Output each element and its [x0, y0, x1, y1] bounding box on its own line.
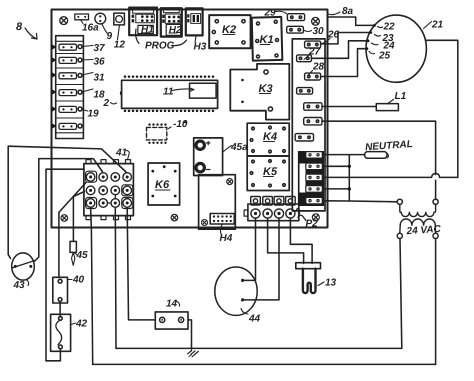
neutral wire 4	[324, 187, 351, 190]
screw hole bottom-left of board	[61, 215, 68, 222]
component 9 (circle with two dots)	[95, 13, 113, 42]
screw hole near K6	[171, 214, 178, 221]
svg-text:43: 43	[13, 280, 26, 291]
neutral wire 2	[324, 165, 351, 168]
svg-text:37: 37	[94, 43, 106, 54]
svg-text:22: 22	[383, 22, 396, 33]
svg-text:PROG: PROG	[145, 41, 175, 52]
strip connector row 5 (19)	[59, 106, 99, 119]
switch 40	[53, 275, 85, 304]
PROG label with leaders	[136, 29, 187, 52]
left connector strip	[56, 36, 84, 139]
svg-text:45a: 45a	[230, 142, 248, 153]
IC 2 with chip 11	[103, 80, 218, 109]
svg-text:36: 36	[94, 57, 106, 68]
relay K4	[247, 123, 289, 156]
svg-text:21: 21	[431, 20, 444, 31]
P2 wire t4 to igniter	[290, 218, 312, 263]
connector 28	[305, 62, 325, 81]
transformer secondary right wire to lower bottom line	[435, 239, 437, 365]
right connector strip	[292, 39, 325, 211]
stray pad dot	[184, 121, 187, 124]
inducer motor 44	[215, 267, 261, 325]
svg-text:16a: 16a	[82, 23, 99, 34]
wire from connector to transformer primary right	[322, 121, 436, 199]
header H4	[210, 214, 234, 245]
wire 40 to 42	[59, 301, 61, 317]
svg-text:19: 19	[88, 109, 100, 120]
P2 wire t1 to 44	[243, 218, 256, 280]
svg-text:44: 44	[248, 314, 261, 325]
wire 43 right riser to block r1c2	[35, 159, 103, 261]
svg-text:H1: H1	[141, 25, 154, 36]
motor 21	[366, 15, 444, 82]
svg-text:H2: H2	[169, 25, 182, 36]
screw hole top-left	[60, 17, 68, 25]
switch 14	[155, 299, 188, 330]
block col1 wire to lower bottom line	[91, 207, 93, 364]
relay K6	[148, 163, 180, 205]
wire board-left to block r1c4 (via 43 left)	[8, 146, 126, 172]
connector (below 28)	[297, 88, 313, 95]
neutral wire 1 + NEUTRAL pigtail	[324, 139, 413, 158]
svg-text:9: 9	[107, 31, 113, 42]
connector to transformer line	[304, 118, 322, 125]
header H2	[161, 8, 182, 36]
black connector block	[298, 151, 324, 206]
P2 wire t3 to 44	[243, 218, 279, 300]
upper bottom line	[116, 347, 402, 349]
transformer 24VAC	[397, 199, 442, 238]
svg-text:2: 2	[103, 98, 110, 109]
screw hole near P2	[312, 214, 319, 221]
connector 26	[305, 30, 340, 49]
relay K3 (notched polygon)	[230, 64, 289, 120]
connector (lower)	[295, 134, 313, 141]
sub-board (bottom middle)	[199, 175, 236, 230]
svg-text:28: 28	[312, 62, 325, 73]
svg-text:8: 8	[16, 21, 23, 33]
switch 14 to ground junction	[188, 320, 192, 349]
P2 wire t2 to igniter	[268, 218, 304, 263]
wire 25 from connector 28	[321, 47, 391, 76]
svg-text:31: 31	[94, 73, 106, 84]
connector to L1	[304, 103, 322, 110]
wire 42 loop riser to block left edge	[46, 169, 84, 361]
svg-text:K6: K6	[155, 179, 170, 191]
fuse 45	[70, 192, 88, 266]
label 8a with leader	[329, 6, 354, 17]
connector 29	[264, 8, 305, 21]
block col3 wire to upper bottom line	[114, 207, 117, 348]
dashed box 10	[147, 119, 188, 144]
terminal strip P2	[244, 197, 318, 230]
transformer secondary left wire to upper bottom line	[400, 239, 402, 349]
block col4 wire to switch 14	[127, 207, 155, 320]
svg-text:29: 29	[264, 8, 277, 19]
svg-text:25: 25	[378, 51, 391, 62]
wire 24 from connector 27	[311, 39, 395, 58]
wire 22	[328, 17, 396, 33]
connector 30	[287, 26, 324, 37]
lower bottom line	[93, 363, 436, 365]
svg-text:H4: H4	[220, 233, 233, 244]
screw hole top-right	[312, 17, 320, 25]
strip connector row 1 (37)	[59, 43, 105, 54]
component 16a	[75, 14, 99, 34]
svg-text:P2: P2	[306, 219, 319, 230]
wire 42 bottom hook	[46, 349, 60, 361]
block 41 terminals grid	[86, 173, 131, 208]
strip connector row 4 (18)	[59, 89, 105, 101]
relay K1	[252, 17, 283, 61]
wire bar3 to motor loop (hops over 435.6)	[324, 173, 458, 177]
capacitor 45a	[194, 138, 248, 176]
svg-text:H3: H3	[194, 42, 207, 53]
igniter 13	[296, 263, 337, 293]
wire 23 from connector 26	[321, 31, 394, 44]
relay K5	[247, 156, 289, 191]
svg-text:13: 13	[325, 278, 337, 289]
strip connector row 2 (36)	[59, 57, 105, 68]
header H3	[186, 8, 207, 52]
switch 43	[12, 253, 36, 291]
wire 43 left riser	[8, 146, 10, 258]
svg-text:11: 11	[163, 87, 174, 98]
terminal block 41	[84, 160, 133, 220]
board outline	[52, 10, 328, 228]
svg-text:8a: 8a	[342, 6, 354, 17]
strip connector row 6	[59, 123, 82, 129]
svg-text:30: 30	[313, 26, 325, 37]
lamp L1	[322, 91, 407, 111]
header H1	[129, 8, 157, 36]
neutral wire 5 to transformer primary left	[324, 201, 397, 202]
label 8 with arrow	[16, 21, 37, 39]
svg-text:40: 40	[72, 275, 85, 286]
ground symbol	[188, 348, 199, 356]
component 12 (square with circle)	[114, 13, 126, 50]
neutral bus vertical	[348, 155, 350, 201]
svg-text:14: 14	[166, 299, 178, 310]
svg-text:L1: L1	[395, 91, 407, 102]
svg-text:-10: -10	[173, 119, 188, 130]
connector 27	[297, 47, 321, 62]
svg-text:27: 27	[308, 47, 321, 58]
strip edge clips	[52, 44, 57, 129]
switch 42	[51, 314, 88, 351]
motor loop wire (right side)	[426, 40, 458, 177]
IC 2 pin dots	[124, 75, 215, 112]
svg-text:12: 12	[114, 40, 126, 51]
svg-text:45: 45	[76, 250, 89, 261]
svg-text:42: 42	[75, 319, 88, 330]
wire block r2c1 to switch 40	[59, 183, 86, 278]
relay K2	[209, 15, 250, 48]
label 41	[115, 148, 129, 160]
strip connector row 3 (31)	[59, 73, 105, 84]
svg-text:41: 41	[115, 148, 128, 159]
